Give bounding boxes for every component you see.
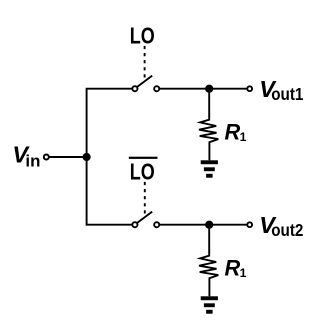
- svg-text:out2: out2: [271, 220, 303, 240]
- wire: switch S1 to Vout1 terminal: [159, 88, 247, 90]
- svg-text:in: in: [25, 151, 40, 170]
- label LO-bar overline: [129, 157, 158, 159]
- label R1 (top): [225, 119, 247, 144]
- svg-text:LO: LO: [130, 22, 155, 48]
- terminal Vin: [44, 155, 49, 160]
- switch S1 control dashed line: [144, 46, 146, 78]
- terminal Vout1: [247, 86, 252, 91]
- svg-text:out1: out1: [271, 84, 303, 104]
- switch S1 arm: [137, 76, 153, 88]
- node: Vin junction on bus: [83, 153, 91, 161]
- svg-text:1: 1: [240, 130, 247, 144]
- svg-text:R: R: [225, 255, 241, 280]
- node B: bottom output junction: [205, 221, 213, 229]
- terminal Vout2: [247, 222, 252, 227]
- node A: top output junction: [205, 85, 213, 93]
- wire: vertical bus with corners to both switch branches: [87, 89, 133, 225]
- switch S2 arm: [137, 212, 153, 224]
- ground (bottom): [201, 296, 218, 313]
- switch S2 left contact: [132, 222, 137, 227]
- ground (top): [201, 160, 218, 177]
- resistor R1 (bottom): lead, zigzag, lead: [199, 225, 218, 297]
- label R1 (bottom): [225, 255, 247, 280]
- switch S1 right contact: [154, 86, 159, 91]
- resistor R1 (top): lead, zigzag, lead: [199, 89, 218, 161]
- svg-text:LO: LO: [130, 158, 155, 184]
- label Vout2: [259, 212, 303, 240]
- switch S2 right contact: [154, 222, 159, 227]
- label Vout1: [259, 76, 303, 104]
- svg-text:1: 1: [240, 266, 247, 280]
- wire: Vin lead to bus: [49, 156, 87, 158]
- switch S1 left contact: [132, 86, 137, 91]
- svg-text:R: R: [225, 119, 241, 144]
- label Vin: [12, 142, 40, 171]
- wire: switch S2 to Vout2 terminal: [159, 224, 247, 226]
- switch S2 control dashed line: [144, 182, 146, 214]
